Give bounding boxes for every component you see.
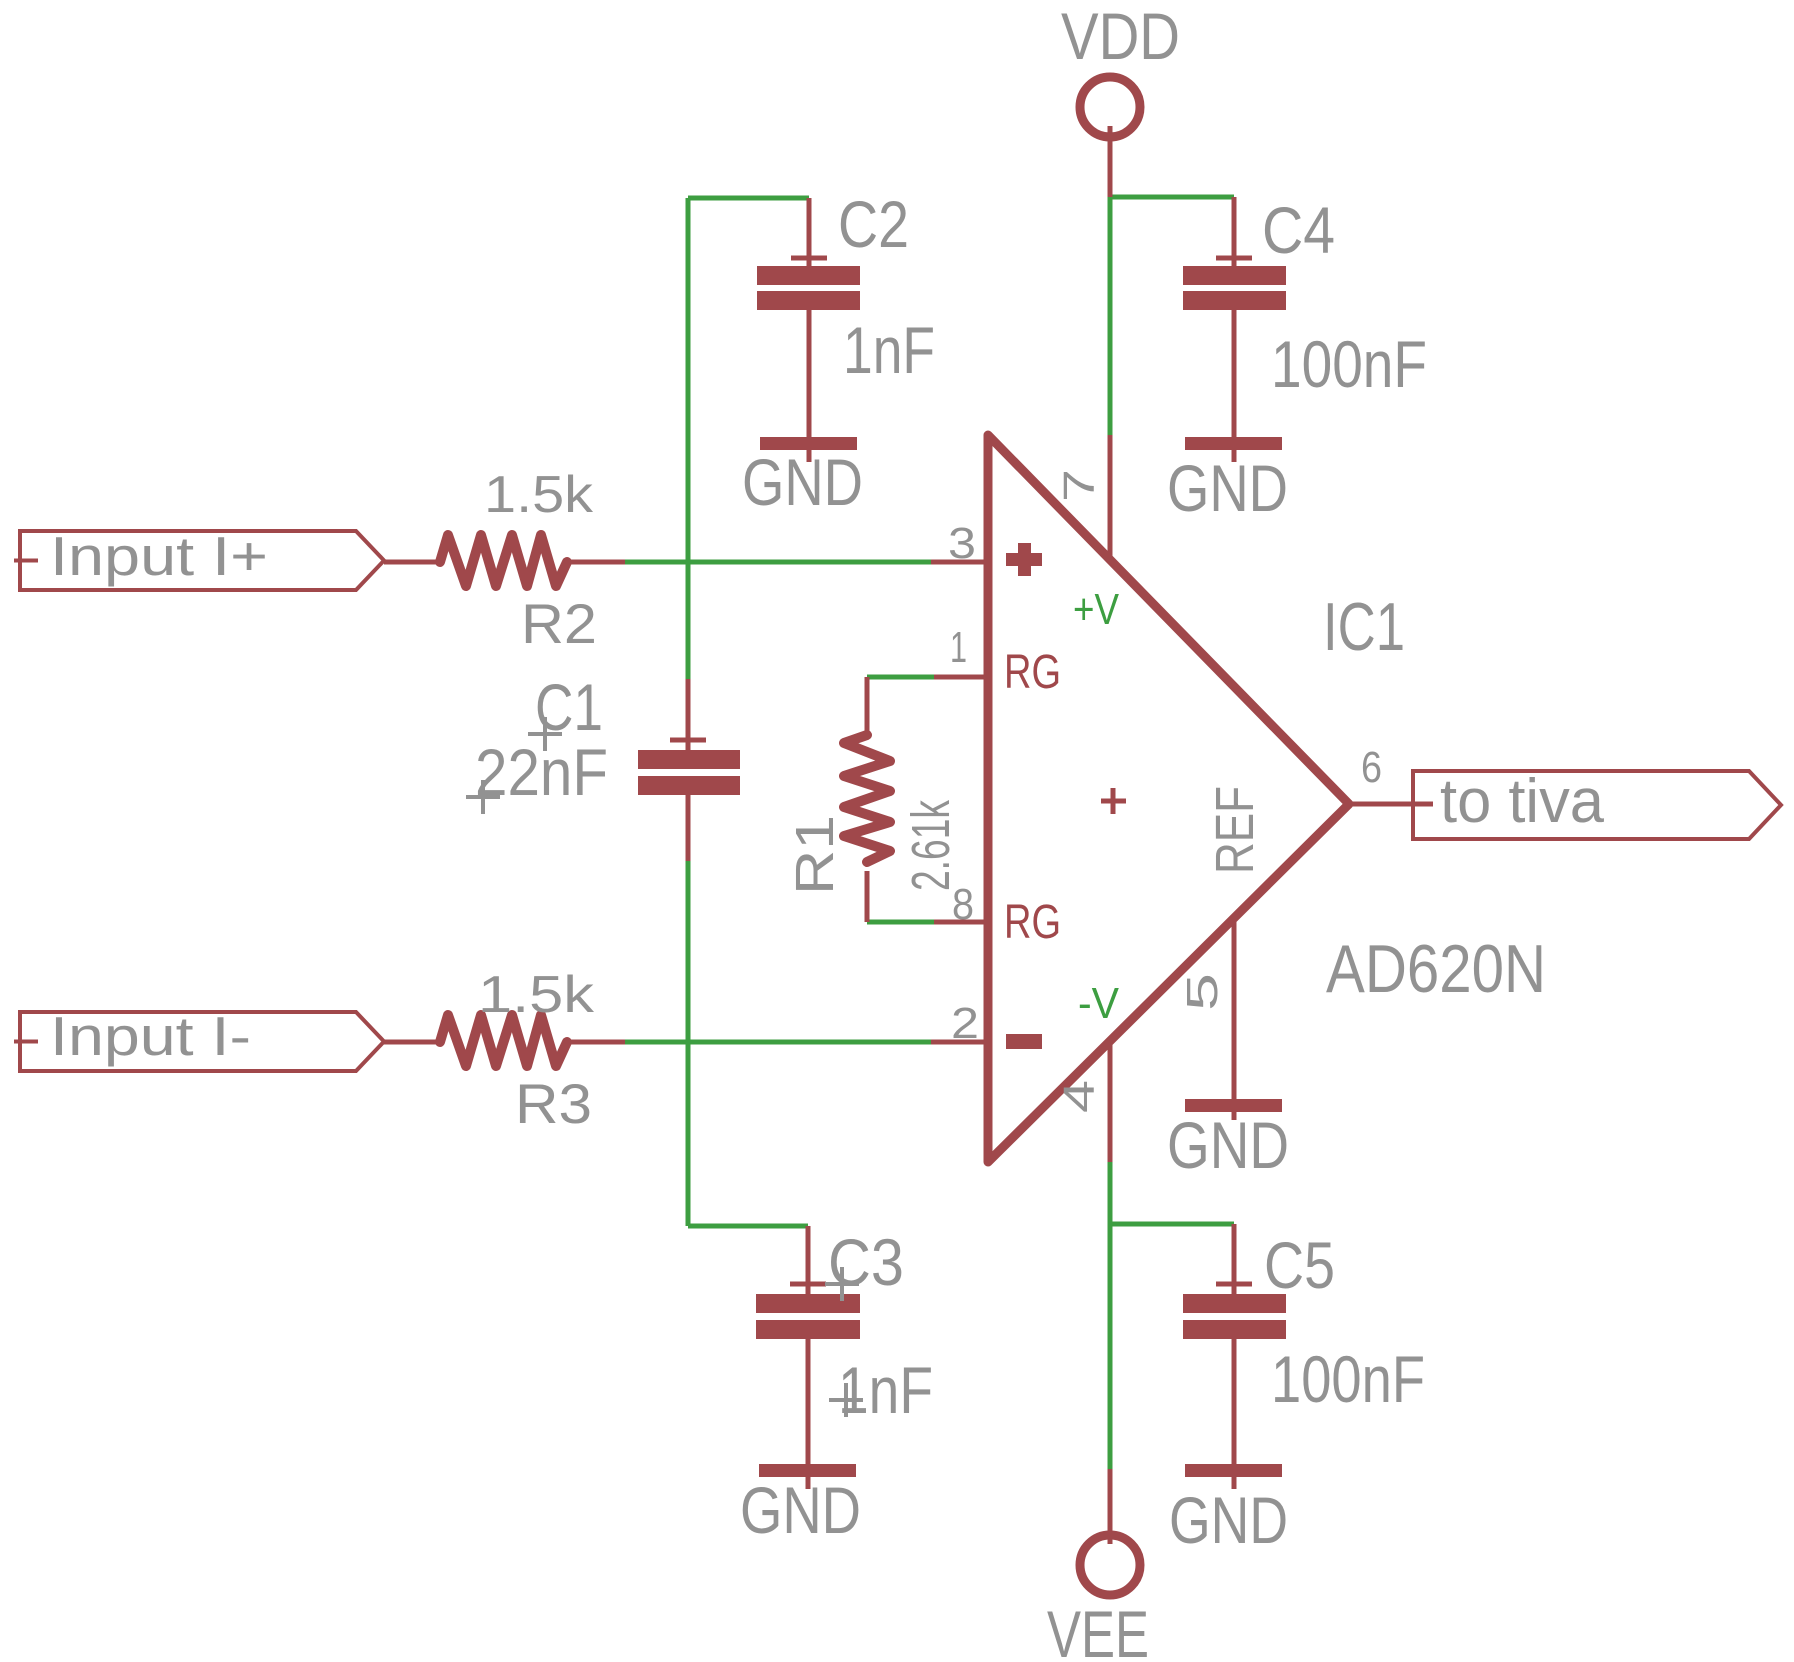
net flag Input I- — [14, 1005, 384, 1071]
svg-text:100nF: 100nF — [1271, 327, 1427, 401]
wire vertical bus to C2 — [686, 198, 691, 679]
wire RG1 link — [867, 675, 934, 680]
svg-text:VDD: VDD — [1061, 0, 1180, 73]
svg-text:GND: GND — [1167, 1108, 1289, 1182]
wire net I- from R3 to pin2 — [625, 1040, 931, 1045]
svg-text:7: 7 — [1055, 469, 1104, 502]
supply symbol VEE — [1047, 1469, 1149, 1662]
ground symbol below C2 — [742, 437, 863, 519]
svg-text:Input I+: Input I+ — [50, 525, 268, 587]
svg-text:GND: GND — [1167, 451, 1288, 525]
svg-text:1nF: 1nF — [843, 313, 935, 387]
svg-text:RG: RG — [1004, 646, 1061, 699]
svg-text:R2: R2 — [521, 592, 597, 655]
ground symbol below C4 — [1167, 437, 1288, 525]
wire horizontal to C3 — [688, 1224, 808, 1229]
ground symbol at pin 5 — [1167, 1099, 1289, 1182]
svg-text:1.5k: 1.5k — [478, 966, 595, 1024]
net flag Input I+ — [14, 525, 384, 590]
svg-text:4: 4 — [1055, 1080, 1104, 1113]
pin 3 stub — [931, 560, 988, 565]
pin 6 stub — [1352, 802, 1433, 807]
wire VDD junction to C4 — [1110, 195, 1234, 200]
capacitor C5 — [1183, 1224, 1425, 1489]
net flag to tiva — [1413, 767, 1781, 839]
svg-text:+V: +V — [1073, 585, 1120, 634]
svg-text:1: 1 — [950, 623, 967, 672]
svg-text:R1: R1 — [785, 815, 845, 895]
svg-text:3: 3 — [948, 519, 976, 568]
svg-text:2.61k: 2.61k — [901, 799, 961, 891]
capacitor C2 — [757, 187, 935, 462]
svg-text:R3: R3 — [515, 1072, 592, 1135]
ground symbol below C3 — [740, 1464, 861, 1547]
pin 5 stub — [1232, 918, 1237, 1120]
wire RG8 link — [867, 920, 934, 925]
svg-text:Input I-: Input I- — [50, 1005, 251, 1067]
wire top horizontal to C2 — [688, 196, 809, 201]
svg-text:1.5k: 1.5k — [484, 466, 594, 524]
svg-text:C5: C5 — [1264, 1228, 1335, 1302]
svg-text:100nF: 100nF — [1271, 1342, 1425, 1416]
svg-text:GND: GND — [742, 445, 863, 519]
pin 4 stub — [1108, 1041, 1113, 1162]
svg-text:AD620N: AD620N — [1326, 931, 1546, 1007]
wire VDD down to pin7 — [1108, 197, 1113, 435]
svg-text:IC1: IC1 — [1323, 589, 1405, 665]
pin 7 stub — [1108, 435, 1113, 560]
svg-text:RG: RG — [1004, 896, 1061, 949]
resistor R1 — [785, 677, 961, 922]
resistor R2 — [384, 466, 625, 655]
wire VEE junction to C5 — [1110, 1222, 1234, 1227]
pin 1 stub — [934, 675, 988, 680]
wire vertical bus below C1 — [686, 861, 691, 1226]
svg-text:C3: C3 — [828, 1225, 904, 1299]
capacitor C1 — [466, 670, 740, 861]
svg-text:C4: C4 — [1262, 193, 1335, 267]
op-amp IC1 — [988, 435, 1546, 1162]
svg-text:to tiva: to tiva — [1440, 767, 1605, 836]
svg-text:1nF: 1nF — [838, 1353, 933, 1427]
svg-text:VEE: VEE — [1047, 1597, 1149, 1662]
svg-text:REF: REF — [1205, 786, 1265, 874]
supply symbol VDD — [1061, 0, 1180, 197]
resistor R3 — [384, 966, 625, 1135]
svg-text:-V: -V — [1078, 979, 1120, 1028]
svg-text:GND: GND — [1169, 1483, 1288, 1557]
svg-text:8: 8 — [952, 880, 974, 929]
svg-text:GND: GND — [740, 1473, 861, 1547]
pin 2 stub — [931, 1040, 988, 1045]
wire net I+ from R2 to pin3 — [625, 560, 931, 565]
svg-text:5: 5 — [1178, 973, 1227, 1011]
svg-text:C2: C2 — [838, 187, 909, 261]
capacitor C3 — [756, 1225, 933, 1489]
wire VEE vertical — [1108, 1162, 1113, 1469]
ground symbol below C5 — [1169, 1464, 1288, 1557]
svg-text:2: 2 — [951, 999, 979, 1048]
svg-text:6: 6 — [1361, 743, 1382, 792]
capacitor C4 — [1183, 193, 1427, 462]
pin 8 stub — [934, 920, 988, 925]
